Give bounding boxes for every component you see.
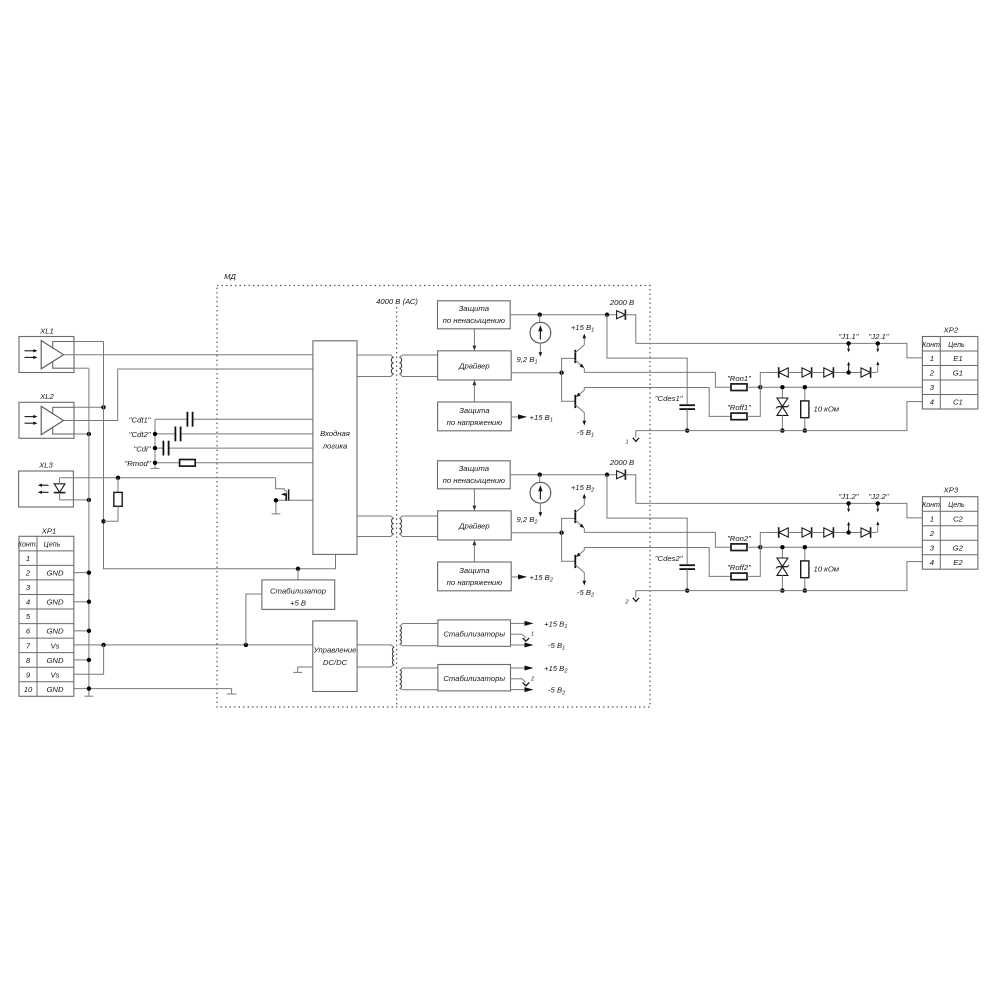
svg-text:GND: GND: [46, 569, 64, 578]
wire XP1 pin10 GND line: [74, 689, 232, 694]
transformer T2 left coil: [392, 518, 394, 534]
node XL3 cathode junction: [87, 498, 91, 502]
svg-text:"Cdt1": "Cdt1": [129, 415, 152, 424]
wire logic to transformer T2 top: [357, 516, 394, 518]
svg-text:GND: GND: [46, 656, 64, 665]
gate-off wire 2: [584, 548, 731, 577]
wire secondary1 bottom to stabilizers1: [400, 644, 438, 646]
diode 2000V 1: [617, 311, 626, 319]
block driver 2 (Drayver): [438, 511, 512, 540]
svg-text:"Roff1": "Roff1": [727, 403, 752, 412]
svg-text:"J1.1": "J1.1": [839, 332, 860, 341]
svg-text:"J1.2": "J1.2": [839, 492, 860, 501]
gate-off wire 1: [584, 388, 731, 417]
transformer T1 left coil: [391, 357, 393, 374]
svg-text:Цепь: Цепь: [948, 502, 965, 509]
jumper J2.1 arrows: [877, 343, 879, 348]
transistor VT2a (NPN upper): [574, 510, 576, 523]
node Cdi junction: [153, 446, 157, 450]
node Vs bus resistor tap: [101, 519, 105, 523]
svg-text:Защита: Защита: [459, 566, 490, 575]
svg-text:3: 3: [930, 543, 935, 552]
svg-text:Е1: Е1: [953, 354, 962, 363]
wire Ron1 to gate node: [747, 386, 760, 388]
wire XP1 pin4 GND stub: [74, 601, 89, 603]
svg-text:8: 8: [26, 656, 31, 665]
svg-text:2: 2: [624, 600, 628, 606]
node TVS bottom 2: [780, 588, 784, 592]
connector XP3 table: [922, 486, 978, 570]
wire stabilizer left input: [246, 594, 262, 645]
gate line G1: [760, 386, 922, 388]
node TVS bottom 1: [780, 428, 784, 432]
node 10k top 2: [803, 545, 807, 549]
wire transformer T2 to driver top: [399, 516, 437, 518]
svg-text:7: 7: [26, 641, 31, 650]
svg-text:Защита: Защита: [459, 464, 490, 473]
node XP1 pin2 junction: [87, 570, 91, 574]
svg-text:GND: GND: [46, 627, 64, 636]
block DC/DC control (Upravlenie DC/DC): [313, 621, 357, 692]
wire XP1 pin9 to Vs line: [74, 645, 104, 674]
wire +15V output of voltage protection 2: [511, 576, 521, 578]
desat sense wire 2: [607, 475, 687, 565]
TVS suppressor 1: [781, 387, 783, 398]
resistor XL3 pull-up: [104, 478, 123, 522]
svg-text:4: 4: [26, 598, 30, 607]
node desat sense tap 1: [605, 313, 609, 317]
emitter rail E1: [636, 402, 923, 431]
svg-text:"Cdes1": "Cdes1": [655, 394, 684, 403]
svg-text:"Cdi": "Cdi": [134, 444, 152, 453]
node pin9 riser junction: [101, 643, 105, 647]
jumper J1.2 arrows: [848, 503, 850, 508]
svg-text:4: 4: [930, 558, 934, 567]
svg-text:1: 1: [26, 554, 30, 563]
svg-text:Vs: Vs: [51, 641, 60, 650]
node XL2 Vs junction: [101, 405, 105, 409]
wire XP1 pin6 GND stub: [74, 630, 89, 632]
svg-text:"Roff2": "Roff2": [727, 563, 752, 572]
wire transformer T2 to driver bottom: [399, 534, 437, 537]
node gate 2: [758, 545, 762, 549]
Cdt group common vertical + ground: [154, 419, 156, 468]
transistor VT2b (PNP lower): [574, 555, 576, 568]
wire +15V output 1: [511, 622, 528, 624]
svg-text:Конт.: Конт.: [922, 502, 942, 509]
node XP1 pin6 junction: [87, 629, 91, 633]
block driver 1 (Drayver): [438, 351, 512, 380]
svg-text:по напряжению: по напряжению: [447, 578, 503, 587]
svg-text:DC/DC: DC/DC: [323, 658, 348, 667]
jumper J1.1 arrows: [848, 343, 850, 348]
node XL3 anode / Rmod-pullup junction: [116, 476, 120, 480]
wire XL3 cathode to gnd bus: [60, 493, 89, 500]
svg-text:"J2.1": "J2.1": [869, 332, 890, 341]
current source 2 (9.2V): [539, 475, 541, 483]
node current source tap 2: [538, 473, 542, 477]
node diode chain J1.2 tap: [846, 530, 850, 534]
svg-text:1: 1: [930, 354, 934, 363]
node gate 1: [758, 385, 762, 389]
resistor 10kOhm 1: [804, 387, 806, 401]
node diode chain J1.1 tap: [846, 370, 850, 374]
node 10k bottom 1: [803, 428, 807, 432]
svg-text:Е2: Е2: [953, 558, 963, 567]
svg-text:ХР3: ХР3: [943, 486, 959, 495]
capacitor Cdi: [134, 441, 313, 456]
wire transformer T1 to driver bottom: [399, 374, 437, 377]
wire base riser up 2: [562, 518, 576, 532]
svg-text:XL1: XL1: [39, 326, 54, 335]
jumper J2.2 arrows: [877, 503, 879, 508]
ground reference output 2: [511, 678, 523, 680]
svg-text:9: 9: [26, 670, 31, 679]
arrow desat protection to driver 2: [473, 489, 475, 507]
node transistor base junction 1: [559, 371, 563, 375]
svg-text:"Cdt2": "Cdt2": [129, 430, 152, 439]
gnd bus (left): [88, 368, 90, 696]
svg-text:2000 В: 2000 В: [609, 298, 634, 307]
svg-text:XL2: XL2: [39, 392, 54, 401]
resistor 10kOhm 2: [804, 547, 806, 561]
svg-text:логика: логика: [322, 441, 348, 450]
wire XL2 signal to input logic: [64, 369, 313, 421]
wire XL3 anode line to MOSFET drain: [58, 478, 60, 484]
svg-text:GND: GND: [46, 685, 64, 694]
wire logic to transformer T1 top: [357, 355, 394, 357]
diode 2000V 2: [617, 471, 626, 479]
block stabilizers 2 (Stabilizatory): [438, 665, 511, 691]
collector line C2: [636, 503, 923, 518]
svg-text:1: 1: [625, 440, 628, 446]
node TVS top 2: [780, 545, 784, 549]
transformer T3 secondary 2 coil: [400, 670, 402, 688]
node 10k bottom 2: [803, 588, 807, 592]
svg-text:Цепь: Цепь: [948, 342, 965, 349]
ground symbol gnd bus: [84, 695, 93, 697]
svg-text:2: 2: [25, 569, 31, 578]
svg-text:2: 2: [530, 676, 534, 682]
wire Roff2 to gate node: [747, 547, 760, 576]
svg-text:Защита: Защита: [459, 304, 490, 313]
svg-text:"Rmod": "Rmod": [125, 459, 152, 468]
svg-text:Конт.: Конт.: [922, 342, 942, 349]
current source 1 (9.2V): [539, 315, 541, 323]
svg-text:2000 В: 2000 В: [609, 458, 634, 467]
svg-text:Конт.: Конт.: [18, 542, 38, 549]
wire diode to collector line 2: [625, 475, 635, 504]
wire XL2 gnd to bus: [74, 433, 89, 435]
block desaturation protection 1 (Zashchita po nenasyshcheniyu): [438, 301, 511, 329]
svg-text:10 кОм: 10 кОм: [814, 405, 840, 414]
transformer T3 primary coil: [392, 647, 394, 664]
transformer T3 secondary 1 coil: [400, 626, 402, 644]
node transistor base junction 2: [559, 531, 563, 535]
ground reference output 1: [511, 633, 523, 635]
capacitor Cdt2: [129, 427, 313, 442]
wire +15V output 2: [511, 667, 528, 669]
module boundary MD (dotted box): [217, 286, 650, 708]
svg-text:Защита: Защита: [459, 406, 490, 415]
wire secondary1 top to stabilizers1: [400, 624, 438, 627]
arrow desat protection to driver 1: [473, 329, 475, 347]
svg-text:"Ron1": "Ron1": [727, 374, 752, 383]
diode chain 1: [760, 373, 778, 388]
svg-text:G2: G2: [953, 543, 964, 552]
wire XP1 pin7 Vs line to DC/DC control: [74, 644, 313, 646]
svg-text:4: 4: [930, 398, 934, 407]
node Cdes1 bottom junction: [685, 428, 689, 432]
floating ground 2 symbol: [635, 591, 637, 598]
svg-text:3: 3: [930, 383, 935, 392]
svg-text:2: 2: [929, 369, 935, 378]
svg-text:"J2.2": "J2.2": [869, 492, 890, 501]
wire -5V output 1: [511, 644, 528, 646]
wire XL2 Vs to bus: [74, 406, 104, 408]
isolation barrier 4000V dotted line: [396, 307, 398, 706]
wire transformer T1 to driver top: [399, 355, 437, 357]
connector XP2 table: [922, 326, 978, 410]
wire secondary2 top to stabilizers2: [400, 668, 438, 670]
node Cdes2 bottom junction: [685, 588, 689, 592]
node jumper J1.1 top: [846, 341, 850, 345]
emitter rail E2: [636, 562, 923, 591]
wire desat protection output line 1: [510, 314, 616, 316]
svg-text:Драйвер: Драйвер: [458, 361, 490, 370]
transistor VT1b (PNP lower): [574, 395, 576, 408]
node jumper J2.2 top: [876, 501, 880, 505]
wire DC/DC primary top: [357, 645, 394, 647]
optical receiver XL2: [19, 392, 74, 438]
node Rmod junction: [153, 461, 157, 465]
node stabilizer top junction: [296, 567, 300, 571]
node Cdt2 junction: [153, 432, 157, 436]
svg-text:Vs: Vs: [51, 670, 60, 679]
node jumper J1.2 top: [846, 501, 850, 505]
svg-text:GND: GND: [46, 598, 64, 607]
arrow voltage protection to driver 2: [473, 544, 475, 562]
node jumper J2.1 top: [876, 341, 880, 345]
svg-text:Стабилизаторы: Стабилизаторы: [443, 674, 505, 683]
wire base riser down 2: [562, 533, 576, 562]
collector line C1: [636, 343, 923, 358]
svg-text:4000 В (АС): 4000 В (АС): [376, 297, 418, 306]
wire +15V output of voltage protection 1: [511, 416, 521, 418]
gate-on wire 1: [584, 372, 731, 387]
Vs bus (left): [104, 342, 336, 569]
block desaturation protection 2 (Zashchita po nenasyshcheniyu): [438, 461, 511, 489]
wire Ron2 to gate node: [747, 546, 760, 548]
svg-text:Стабилизатор: Стабилизатор: [270, 587, 327, 596]
svg-text:по ненасыщению: по ненасыщению: [443, 476, 505, 485]
wire stabilizer top lead: [297, 569, 299, 580]
node MOSFET source junction: [274, 498, 278, 502]
block stabilizer +5V: [262, 580, 335, 610]
block input logic (Vkhodnaya logika): [313, 341, 357, 555]
svg-text:+5 В: +5 В: [290, 599, 306, 608]
svg-text:Входная: Входная: [320, 429, 350, 438]
node current source tap 1: [538, 313, 542, 317]
connector XP1 table: [18, 527, 74, 697]
svg-text:Драйвер: Драйвер: [458, 521, 490, 530]
wire MOSFET source to local ground: [276, 500, 285, 513]
node XP1 pin4 junction: [87, 600, 91, 604]
svg-text:1: 1: [531, 632, 534, 638]
optical receiver XL1: [19, 326, 74, 372]
block stabilizers 1 (Stabilizatory): [438, 620, 511, 646]
svg-text:3: 3: [26, 583, 31, 592]
desat sense wire 1: [607, 315, 687, 405]
wire XP1 pin8 GND stub: [74, 659, 89, 661]
wire -5V output 2: [511, 689, 528, 691]
block voltage protection 1 (Zashchita po napryazheniyu): [438, 402, 512, 431]
node XP1 pin8 junction: [87, 658, 91, 662]
gate-on wire 2: [584, 532, 731, 547]
wire XL1 gnd to bus: [74, 367, 89, 369]
wire diode to collector line 1: [625, 315, 635, 344]
svg-text:ХР2: ХР2: [943, 326, 959, 335]
node desat sense tap 2: [605, 473, 609, 477]
svg-text:6: 6: [26, 627, 31, 636]
node XL2 gnd junction: [87, 432, 91, 436]
capacitor Cdt1: [129, 412, 313, 427]
wire DC/DC primary bottom: [357, 665, 394, 667]
svg-text:G1: G1: [953, 369, 963, 378]
svg-text:ХР1: ХР1: [41, 527, 57, 536]
wire Roff1 to gate node: [747, 387, 760, 416]
wire base riser up 1: [562, 358, 576, 372]
transistor VT1a (NPN upper): [574, 350, 576, 363]
svg-text:Цепь: Цепь: [44, 542, 61, 549]
gate line G2: [760, 546, 922, 548]
svg-text:С1: С1: [953, 398, 963, 407]
svg-text:10 кОм: 10 кОм: [814, 565, 840, 574]
wire logic to transformer T1 bottom: [357, 374, 394, 377]
optical transmitter XL3: [19, 461, 74, 508]
svg-text:10: 10: [24, 685, 33, 694]
wire base riser down 1: [562, 373, 576, 402]
node 10k top 1: [803, 385, 807, 389]
node stabilizer riser junction: [244, 643, 248, 647]
transformer T1 right coil: [399, 357, 401, 374]
resistor Rmod: [125, 459, 313, 468]
svg-text:"Ron2": "Ron2": [727, 534, 752, 543]
diode chain 2: [760, 533, 778, 548]
wire XP1 pin2 GND stub: [74, 572, 89, 574]
svg-text:"Cdes2": "Cdes2": [655, 554, 684, 563]
wire driver 2 output: [511, 532, 561, 534]
svg-text:5: 5: [26, 612, 31, 621]
svg-text:Управление: Управление: [313, 645, 357, 654]
node TVS top 1: [780, 385, 784, 389]
wire XL1 signal to input logic: [64, 354, 313, 356]
TVS suppressor 2: [781, 547, 783, 558]
svg-text:XL3: XL3: [38, 461, 53, 470]
transformer T2 right coil: [399, 518, 401, 534]
svg-text:по напряжению: по напряжению: [447, 418, 503, 427]
wire XL3 line down to MOSFET: [276, 478, 285, 490]
svg-text:по ненасыщению: по ненасыщению: [443, 316, 505, 325]
node XP1 pin10 junction: [87, 686, 91, 690]
wire driver 1 output: [511, 372, 561, 374]
block voltage protection 2 (Zashchita po napryazheniyu): [438, 562, 512, 591]
floating ground 1 symbol: [635, 431, 637, 438]
svg-text:Стабилизаторы: Стабилизаторы: [443, 629, 505, 638]
wire XL1 Vs to bus: [74, 341, 104, 343]
svg-text:1: 1: [930, 514, 934, 523]
wire desat protection output line 2: [510, 474, 616, 476]
wire logic to transformer T2 bottom: [357, 534, 394, 537]
MOSFET Q1 modulator: [281, 489, 289, 501]
arrow voltage protection to driver 1: [473, 384, 475, 402]
wire secondary2 bottom to stabilizers2: [400, 688, 438, 689]
DC/DC local ground: [298, 667, 313, 672]
svg-text:МД: МД: [224, 272, 236, 281]
svg-text:С2: С2: [953, 514, 964, 523]
svg-text:2: 2: [929, 529, 935, 538]
wire MOSFET gate to input logic: [289, 499, 313, 501]
